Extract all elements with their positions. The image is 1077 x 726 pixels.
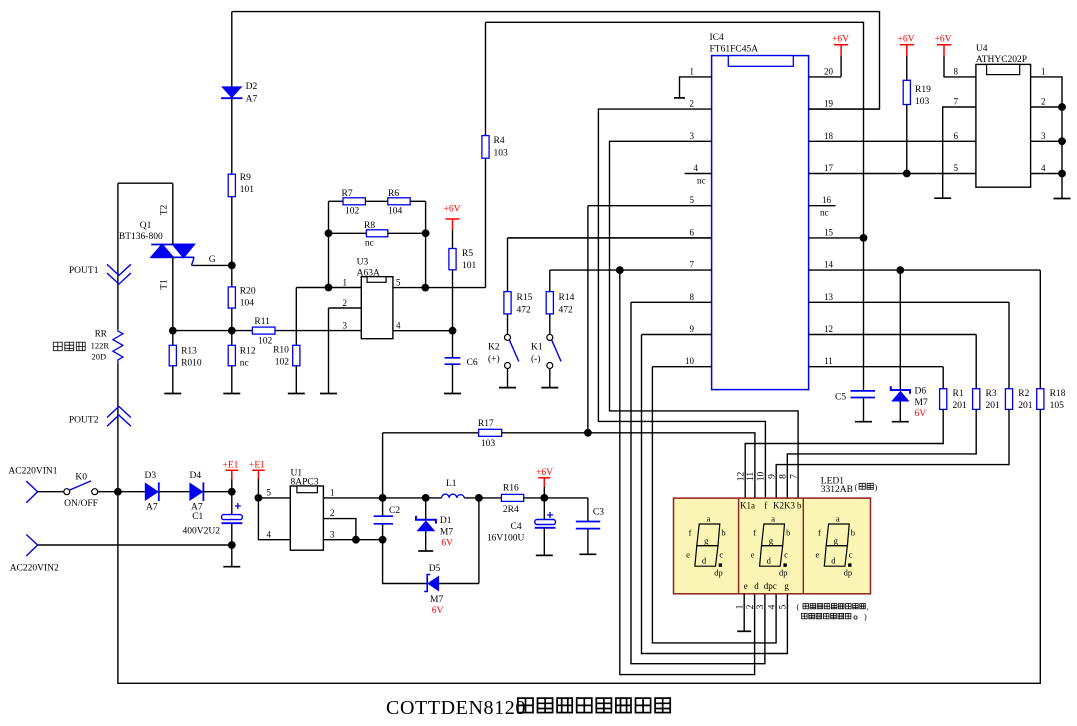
svg-text:T1: T1 xyxy=(160,279,170,290)
svg-text:11: 11 xyxy=(746,472,756,481)
svg-text:103: 103 xyxy=(481,439,496,449)
svg-text:+6V: +6V xyxy=(898,35,915,45)
svg-text:U4: U4 xyxy=(976,44,988,54)
resistor R15 xyxy=(508,238,712,292)
svg-text:101: 101 xyxy=(240,185,255,195)
svg-text:c: c xyxy=(719,550,723,560)
ground under C3 xyxy=(579,553,596,555)
node G xyxy=(228,262,236,270)
svg-text:(-): (-) xyxy=(531,354,541,365)
svg-text:K0: K0 xyxy=(75,473,87,483)
resistor R13 xyxy=(172,331,174,346)
capacitor C5 xyxy=(851,391,876,398)
svg-text:M7: M7 xyxy=(440,528,453,538)
left rail POUT2 xyxy=(117,364,119,492)
heater resistor RR (zigzag) xyxy=(113,329,123,363)
svg-text:A7: A7 xyxy=(146,503,158,513)
svg-text:10: 10 xyxy=(685,356,695,366)
svg-text:g: g xyxy=(784,581,789,591)
resistor R18 xyxy=(1037,389,1044,410)
svg-text:g: g xyxy=(834,536,839,546)
svg-text:16V100U: 16V100U xyxy=(487,534,525,544)
ground under D1 xyxy=(418,550,433,552)
wire T2 top xyxy=(118,183,173,244)
svg-text:105: 105 xyxy=(1050,401,1065,411)
svg-text:e: e xyxy=(744,581,748,591)
svg-text:f: f xyxy=(818,528,821,538)
IC4 FT61FC45A body xyxy=(712,56,809,390)
U4 pin 7 wire to ground xyxy=(943,107,976,198)
svg-text:R5: R5 xyxy=(462,249,473,259)
wire R17 to LED pin11 xyxy=(502,433,755,498)
svg-text:122R: 122R xyxy=(91,341,110,351)
svg-text:D3: D3 xyxy=(145,471,157,481)
resistor R5 xyxy=(449,249,456,270)
svg-text:R6: R6 xyxy=(388,189,399,199)
svg-text:A7: A7 xyxy=(191,503,203,513)
IC4 pin 16 stub nc xyxy=(809,205,836,207)
svg-text:1: 1 xyxy=(1041,66,1046,76)
regulator U1 8APC3 xyxy=(258,497,290,499)
svg-text:+E1: +E1 xyxy=(223,461,239,471)
svg-text:,: , xyxy=(867,603,869,612)
7-segment digit 2 xyxy=(760,524,785,566)
svg-text:(: ( xyxy=(797,603,800,612)
wire U1 pin3 xyxy=(323,539,382,541)
svg-text:+E1: +E1 xyxy=(249,461,265,471)
wire U3 pin5 xyxy=(393,287,486,289)
IC4 pin 9 wire to LED pin5 xyxy=(642,335,788,654)
switch K0 xyxy=(64,489,70,495)
IC4 pin 2 wire to LED pin10 xyxy=(598,109,765,498)
svg-text:11: 11 xyxy=(824,356,833,366)
IC4 pin 1 to ground xyxy=(680,77,712,98)
wire R4 top to pin15/C5 xyxy=(486,22,864,391)
svg-text:g: g xyxy=(704,536,709,546)
svg-text:COTTDEN8120: COTTDEN8120 xyxy=(386,697,526,719)
svg-text:A63A: A63A xyxy=(357,268,380,278)
resistor R1 xyxy=(940,389,947,410)
IC4 pin 6 wire to R15 xyxy=(508,237,712,239)
svg-text:c: c xyxy=(849,550,853,560)
svg-text:102: 102 xyxy=(345,207,360,217)
svg-text:6V: 6V xyxy=(915,409,927,419)
svg-text:20: 20 xyxy=(824,66,834,76)
svg-text:ON/OFF: ON/OFF xyxy=(64,499,98,509)
svg-text:101: 101 xyxy=(462,261,477,271)
svg-text:b: b xyxy=(786,528,790,538)
svg-text:(+): (+) xyxy=(488,354,500,365)
ground under R10 xyxy=(288,393,305,395)
svg-text:b: b xyxy=(851,528,855,538)
IC4 pin 7 wire to R14 and LED pin2 xyxy=(550,270,755,674)
svg-text:3: 3 xyxy=(343,321,348,331)
svg-text:dp: dp xyxy=(844,568,853,578)
left rail POUT1 xyxy=(117,183,119,329)
zener diode D6 xyxy=(899,270,901,390)
svg-text:d: d xyxy=(831,556,836,566)
wire U3 pin2 to ground xyxy=(329,308,362,394)
svg-text:a: a xyxy=(836,514,840,524)
zener diode D1 xyxy=(422,494,430,502)
wire R2 to LED pin9 xyxy=(776,409,1009,498)
svg-text:R15: R15 xyxy=(517,293,533,303)
resistor R4 xyxy=(485,158,487,287)
svg-text:5: 5 xyxy=(954,163,959,173)
svg-text:103: 103 xyxy=(915,97,930,107)
svg-text:R10: R10 xyxy=(273,346,289,356)
switch K1 (-) xyxy=(547,334,553,340)
IC4 pin 17 wire to U4 pin5 xyxy=(809,173,976,175)
svg-text:2: 2 xyxy=(343,298,348,308)
svg-text:(: ( xyxy=(855,482,858,492)
svg-text:dpc: dpc xyxy=(764,581,777,591)
IC4 pin 5 wire to R17 node xyxy=(588,206,712,433)
svg-text:3: 3 xyxy=(756,604,766,609)
op-amp U3 A63A xyxy=(361,277,393,339)
svg-text:dp: dp xyxy=(779,568,788,578)
IC U4 ATHYC202P body xyxy=(976,64,1031,187)
svg-text:201: 201 xyxy=(1018,401,1033,411)
diode D4 xyxy=(189,482,203,501)
wire AC220VIN2 to C1 xyxy=(38,544,232,546)
ground under R13 xyxy=(164,393,181,395)
svg-text:2R4: 2R4 xyxy=(503,505,519,515)
resistor R16 xyxy=(501,494,523,501)
svg-text:R18: R18 xyxy=(1050,389,1066,399)
svg-text:R13: R13 xyxy=(181,347,197,357)
svg-text:R3: R3 xyxy=(986,389,997,399)
svg-text:d: d xyxy=(767,556,772,566)
IC4 pin 13 wire to R2 xyxy=(809,302,1009,388)
capacitor C3 xyxy=(587,498,589,554)
svg-text:8: 8 xyxy=(690,292,695,302)
svg-text:f: f xyxy=(689,528,692,538)
LED pin1 ground wire xyxy=(743,594,745,632)
svg-text:K2K3: K2K3 xyxy=(773,501,795,511)
svg-text:7: 7 xyxy=(690,260,695,270)
switch K2 (+) xyxy=(505,334,511,340)
U4 right rail to ground xyxy=(1031,77,1062,199)
svg-text:POUT2: POUT2 xyxy=(69,416,99,426)
svg-text:4: 4 xyxy=(267,529,272,539)
svg-text:102: 102 xyxy=(258,337,273,347)
resistor R11 xyxy=(252,327,275,334)
svg-text:FT61FC45A: FT61FC45A xyxy=(710,45,759,55)
label heater chinese xyxy=(53,342,62,351)
svg-text:f: f xyxy=(753,528,756,538)
svg-text:17: 17 xyxy=(824,163,834,173)
svg-text:+6V: +6V xyxy=(935,35,952,45)
IC4 pin 18 wire to U4 pin6 xyxy=(809,140,976,142)
7-segment digit 1 xyxy=(695,524,720,566)
feedback right vertical xyxy=(425,201,427,287)
wire U3 pin4 xyxy=(393,330,453,332)
svg-text:K2: K2 xyxy=(488,343,500,353)
resistor R6 xyxy=(388,198,410,205)
svg-text:e: e xyxy=(751,550,755,560)
svg-text:nc: nc xyxy=(240,359,249,369)
svg-text:7: 7 xyxy=(954,97,959,107)
diode D2 xyxy=(231,12,233,87)
svg-text:G: G xyxy=(209,255,216,265)
svg-text:d: d xyxy=(754,581,759,591)
resistor R2 xyxy=(1005,389,1012,410)
resistor R12 xyxy=(231,331,233,346)
svg-text:13: 13 xyxy=(824,292,834,302)
svg-text:12: 12 xyxy=(824,324,833,334)
svg-text:1: 1 xyxy=(343,277,348,287)
svg-text:+6V: +6V xyxy=(832,35,849,45)
svg-text:POUT1: POUT1 xyxy=(69,266,99,276)
svg-text:1: 1 xyxy=(330,488,335,498)
svg-text:nc: nc xyxy=(697,176,706,186)
wire R1 to LED pin12 xyxy=(745,409,943,498)
svg-text:2: 2 xyxy=(690,99,695,109)
svg-text:19: 19 xyxy=(824,99,834,109)
svg-text:2: 2 xyxy=(1041,97,1046,107)
IC4 pin 4 stub nc xyxy=(685,173,712,175)
svg-text:18: 18 xyxy=(824,131,834,141)
svg-text:5: 5 xyxy=(396,277,401,287)
svg-text:R11: R11 xyxy=(254,317,270,327)
resistor R3 xyxy=(973,389,980,410)
IC4 pin 20 wire xyxy=(809,56,842,77)
svg-text:R7: R7 xyxy=(342,189,353,199)
diode D3 xyxy=(145,482,159,501)
svg-text:a: a xyxy=(707,514,711,524)
svg-text:2: 2 xyxy=(746,604,756,609)
svg-text:M7: M7 xyxy=(915,398,928,408)
IC4 pin 15 wire xyxy=(809,237,864,239)
ground under R12 xyxy=(223,393,240,395)
wire T1 down xyxy=(172,257,174,330)
svg-text:1: 1 xyxy=(690,66,695,76)
svg-text:D4: D4 xyxy=(190,471,202,481)
IC4 pin 10 wire to LED pin4 xyxy=(652,367,776,643)
svg-text:2: 2 xyxy=(330,508,335,518)
svg-text:D6: D6 xyxy=(915,387,927,397)
svg-text:c: c xyxy=(784,550,788,560)
svg-text:L1: L1 xyxy=(446,479,457,489)
wire R3 to LED pin8 xyxy=(787,409,976,498)
svg-text:102: 102 xyxy=(275,358,290,368)
svg-text:C5: C5 xyxy=(835,393,846,403)
IC4 pin 14 wire to R18 xyxy=(809,270,1041,389)
svg-text:10: 10 xyxy=(757,472,767,482)
svg-text:R8: R8 xyxy=(364,221,375,231)
svg-text:7: 7 xyxy=(789,474,799,479)
svg-text:103: 103 xyxy=(494,149,509,159)
LED1 display 3312AB box xyxy=(674,498,871,594)
IC4 pin 8 wire to LED pin3 xyxy=(631,302,765,663)
ground under K1 xyxy=(541,387,558,389)
svg-text:201: 201 xyxy=(986,401,1001,411)
svg-text:ATHYC202P: ATHYC202P xyxy=(976,55,1027,65)
resistor R7 xyxy=(329,200,344,202)
svg-text:R16: R16 xyxy=(503,484,519,494)
resistor R14 xyxy=(549,270,551,292)
svg-text:3: 3 xyxy=(330,529,335,539)
svg-text:15: 15 xyxy=(824,227,834,237)
ground under D6 xyxy=(892,421,909,423)
svg-text:C6: C6 xyxy=(467,358,478,368)
svg-text:6V: 6V xyxy=(441,539,453,549)
svg-text:a: a xyxy=(771,514,775,524)
svg-text:R17: R17 xyxy=(478,419,494,429)
wire U1 pin1 east xyxy=(323,497,441,499)
svg-text:6: 6 xyxy=(690,227,695,237)
svg-text:14: 14 xyxy=(824,260,834,270)
svg-text:104: 104 xyxy=(388,207,403,217)
svg-text:b: b xyxy=(797,501,802,511)
ground under U3 pin2 xyxy=(320,393,337,395)
svg-text:e: e xyxy=(816,550,820,560)
svg-text:IC4: IC4 xyxy=(710,33,725,43)
ground under C6 xyxy=(444,393,461,395)
svg-text:C1: C1 xyxy=(192,512,203,522)
svg-text:8: 8 xyxy=(779,474,789,479)
svg-text:nc: nc xyxy=(820,208,829,218)
svg-text:R20: R20 xyxy=(240,287,256,297)
svg-text:R12: R12 xyxy=(240,347,256,357)
svg-text:C3: C3 xyxy=(593,508,604,518)
svg-text:R010: R010 xyxy=(181,359,202,369)
svg-text:9: 9 xyxy=(767,474,777,479)
ground under C1 xyxy=(223,566,240,568)
IC4 pin 19 wire (to top border) xyxy=(809,108,880,110)
svg-text:R1: R1 xyxy=(953,389,964,399)
svg-text:400V2U2: 400V2U2 xyxy=(183,527,221,537)
svg-text:9: 9 xyxy=(690,324,695,334)
main node wire y=330.6 xyxy=(173,330,253,332)
svg-text:3: 3 xyxy=(1041,131,1046,141)
svg-text:C2: C2 xyxy=(389,506,400,516)
svg-text:T2: T2 xyxy=(160,204,170,215)
svg-text:M7: M7 xyxy=(430,595,443,605)
svg-text:201: 201 xyxy=(953,401,968,411)
svg-text:3: 3 xyxy=(690,131,695,141)
svg-text:16: 16 xyxy=(822,195,832,205)
svg-text:K1a: K1a xyxy=(740,501,755,511)
resistor R17 xyxy=(383,433,479,498)
bottom border wire (R18 to AC rail) xyxy=(118,409,1040,683)
zener diode D5 xyxy=(383,498,479,584)
svg-text:U3: U3 xyxy=(357,258,369,268)
svg-text:e: e xyxy=(686,550,690,560)
svg-text:472: 472 xyxy=(559,306,574,316)
capacitor C2 xyxy=(379,494,387,502)
svg-text:12: 12 xyxy=(736,472,746,482)
ground under U4 right rail xyxy=(1054,198,1071,200)
svg-text:5: 5 xyxy=(690,195,695,205)
top border wire xyxy=(232,12,880,110)
svg-text:4: 4 xyxy=(767,604,777,609)
capacitor C6 xyxy=(445,358,461,364)
svg-text:dp: dp xyxy=(714,568,723,578)
svg-text:3312AB: 3312AB xyxy=(821,485,853,495)
svg-text:AC220VIN2: AC220VIN2 xyxy=(10,564,59,574)
7-segment digit 3 xyxy=(824,524,849,566)
svg-text:6: 6 xyxy=(954,131,959,141)
IC4 pin 3 wire to LED pin7 xyxy=(610,141,799,498)
svg-text:8APC3: 8APC3 xyxy=(291,477,319,487)
svg-text:RR: RR xyxy=(95,329,107,339)
svg-text:4: 4 xyxy=(1041,163,1046,173)
U4 pin 8 wire xyxy=(944,56,976,77)
ground under C5 xyxy=(855,421,872,423)
IC4 pin 12 wire to R3 xyxy=(809,335,977,389)
ground under U4 pin7 xyxy=(934,197,951,199)
svg-text:BT136-800: BT136-800 xyxy=(119,232,163,242)
capacitor C1 400V2U2 xyxy=(231,492,233,515)
wire U3 pin1 xyxy=(329,287,362,289)
svg-text:R2: R2 xyxy=(1018,389,1029,399)
svg-text:5: 5 xyxy=(267,488,272,498)
svg-text:A7: A7 xyxy=(246,95,258,105)
ground under C4 xyxy=(536,554,553,556)
svg-text:20D: 20D xyxy=(92,352,107,362)
wire U1 pin2 xyxy=(323,519,356,540)
capacitor C4 16V100U xyxy=(543,498,545,520)
resistor R8 xyxy=(329,232,367,234)
svg-text:f: f xyxy=(764,501,767,511)
svg-text:): ) xyxy=(864,612,867,621)
svg-text:6V: 6V xyxy=(432,606,444,616)
feedback left vertical xyxy=(328,201,330,287)
svg-text:): ) xyxy=(875,482,878,492)
svg-text:4: 4 xyxy=(396,321,401,331)
resistor R20 xyxy=(228,287,235,308)
svg-text:+6V: +6V xyxy=(444,205,461,215)
svg-text:R14: R14 xyxy=(559,293,575,303)
svg-text:R4: R4 xyxy=(494,136,505,146)
svg-text:R9: R9 xyxy=(240,173,251,183)
svg-text:b: b xyxy=(721,528,725,538)
svg-text:D5: D5 xyxy=(429,564,441,574)
svg-text:C4: C4 xyxy=(511,522,522,532)
svg-text:104: 104 xyxy=(240,299,255,309)
IC4 pin 11 wire to R1 xyxy=(809,367,944,389)
svg-text:8: 8 xyxy=(954,66,959,76)
note text chinese line2 xyxy=(802,613,808,618)
svg-text:D1: D1 xyxy=(440,516,452,526)
resistor R10 xyxy=(296,288,328,346)
resistor R9 xyxy=(228,174,235,197)
svg-text:nc: nc xyxy=(365,239,374,249)
svg-text:+6V: +6V xyxy=(536,468,553,478)
svg-text:K1: K1 xyxy=(531,343,543,353)
svg-text:4: 4 xyxy=(694,163,699,173)
svg-text:472: 472 xyxy=(517,306,532,316)
svg-text:AC220VIN1: AC220VIN1 xyxy=(8,467,57,477)
svg-text:D2: D2 xyxy=(246,82,258,92)
svg-text:Q1: Q1 xyxy=(140,221,152,231)
svg-text:5: 5 xyxy=(779,604,789,609)
svg-text:R19: R19 xyxy=(915,85,931,95)
ground under K2 xyxy=(499,387,516,389)
